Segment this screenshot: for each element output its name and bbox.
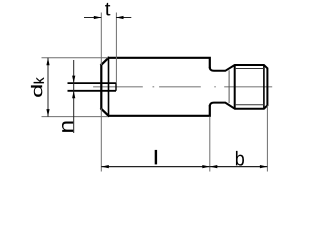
label dk: d (rotated)	[31, 85, 42, 97]
dimension l: right arrow	[202, 165, 210, 168]
dimension b: extension line right	[266, 106, 268, 172]
dimension b: right arrow	[260, 165, 268, 168]
dimension t: right arrow	[116, 16, 124, 19]
axis / center line dash 1	[93, 86, 143, 88]
thread root line top	[235, 68, 264, 70]
neck with fillets and thread run-in cone (top)	[210, 65, 235, 71]
dimension b: left arrow	[210, 165, 218, 168]
dimension n: leader line	[73, 60, 75, 133]
slot bottom edge vertical	[115, 83, 117, 91]
body outline (shoulder cylinder)	[101, 58, 210, 116]
slot depth line inside body (t extension through top edge down to slot)	[115, 13, 117, 84]
dimension t: left arrow	[94, 16, 102, 19]
label n (rotated)	[62, 122, 73, 132]
dimension dk: dimension line	[47, 58, 49, 117]
dimension l: dimension line	[101, 166, 210, 168]
dimension dk: bottom arrow	[46, 109, 49, 117]
dimension t: extension line left	[100, 13, 102, 66]
thread end chamfer edge	[263, 65, 265, 109]
dimension l: left arrow	[101, 165, 109, 168]
thread start edge	[234, 65, 236, 109]
dimension n: top arrow	[72, 76, 75, 84]
slot (top and bottom lines with extensions to the left)	[68, 83, 117, 91]
label b	[236, 151, 244, 166]
neck with fillets and thread run-in cone (bottom)	[210, 103, 235, 109]
dimension t: dimension line right tail	[116, 17, 131, 19]
dimension b: dimension line	[210, 166, 268, 168]
dimension dk: extension line bottom	[42, 116, 109, 118]
dimension dk: top arrow	[46, 58, 49, 65]
label dk: k subscript (rotated)	[34, 77, 44, 83]
dimension l and b: shared extension line	[209, 117, 211, 172]
dimension dk: extension line top	[42, 57, 109, 59]
dimension t: dimension line left tail	[84, 17, 101, 19]
label t	[105, 3, 110, 16]
dimension l: extension line left	[100, 109, 102, 172]
axis / center line dot 2	[214, 86, 216, 88]
thread runout boundary line	[228, 70, 230, 103]
thread outline (major diameter with end chamfer)	[235, 65, 268, 109]
thread root line bottom	[235, 104, 264, 106]
axis / center line dash 3	[224, 86, 272, 88]
label l	[155, 150, 157, 165]
chamfer edge line on body left face	[108, 58, 110, 116]
dimension n: bottom arrow	[72, 91, 75, 99]
axis / center line dot 1	[153, 86, 155, 88]
axis / center line dash 2	[159, 86, 201, 88]
